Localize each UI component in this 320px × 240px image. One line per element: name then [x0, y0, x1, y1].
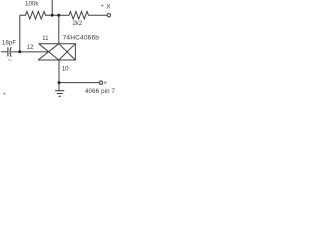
- svg-text:10: 10: [62, 65, 69, 72]
- svg-text:+: +: [101, 4, 104, 10]
- svg-text:18pF: 18pF: [2, 39, 17, 46]
- svg-text:X: X: [106, 3, 111, 10]
- svg-text:2k2: 2k2: [73, 21, 83, 27]
- svg-text:74HC4066b: 74HC4066b: [63, 35, 100, 42]
- svg-text:11: 11: [42, 35, 49, 42]
- svg-text:100k: 100k: [25, 1, 39, 8]
- svg-text:12: 12: [27, 44, 34, 51]
- svg-text:4066 pin 7: 4066 pin 7: [85, 88, 116, 95]
